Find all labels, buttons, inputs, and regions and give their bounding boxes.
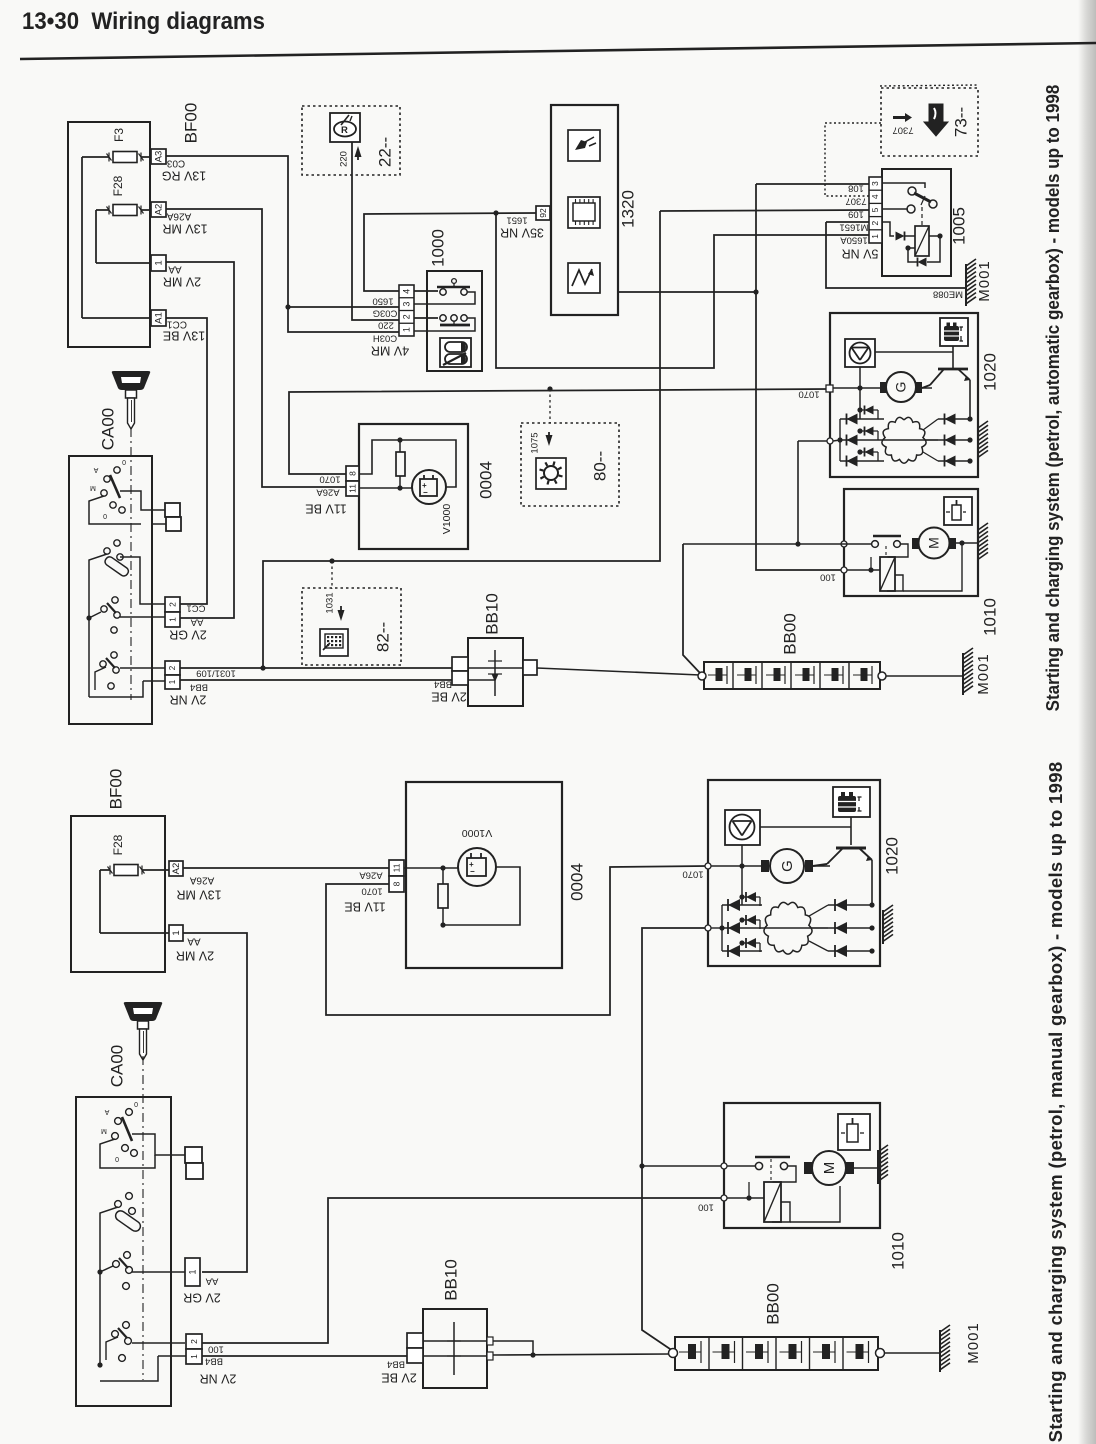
svg-text:ME088: ME088 (933, 288, 963, 299)
svg-text:1020: 1020 (882, 837, 901, 875)
svg-text:1650A: 1650A (840, 234, 868, 245)
svg-text:AA: AA (205, 1275, 218, 1286)
svg-text:M1651: M1651 (839, 221, 868, 232)
svg-text:BB4: BB4 (387, 1358, 405, 1369)
svg-text:1650: 1650 (372, 295, 393, 306)
svg-text:A26A: A26A (316, 486, 340, 497)
svg-text:−: − (423, 488, 428, 497)
svg-text:1: 1 (154, 260, 165, 265)
svg-text:13V MR: 13V MR (176, 888, 221, 902)
svg-text:1010: 1010 (980, 598, 999, 636)
svg-text:1: 1 (187, 1269, 197, 1274)
svg-text:F28: F28 (111, 175, 125, 196)
svg-text:13•30 Wiring diagrams: 13•30 Wiring diagrams (22, 8, 265, 35)
svg-text:7307: 7307 (845, 195, 866, 206)
svg-text:220: 220 (378, 319, 394, 330)
svg-text:C03H: C03H (373, 332, 397, 343)
svg-text:0: 0 (115, 1155, 119, 1162)
svg-text:CC1: CC1 (167, 318, 187, 329)
svg-text:BB00: BB00 (780, 613, 799, 655)
svg-text:8: 8 (391, 881, 401, 886)
svg-text:2: 2 (168, 665, 177, 670)
svg-text:1: 1 (168, 679, 177, 684)
svg-text:A1: A1 (154, 312, 165, 324)
svg-text:2: 2 (401, 314, 411, 319)
svg-text:1075: 1075 (530, 432, 541, 453)
svg-text:2V MR: 2V MR (163, 275, 201, 289)
svg-text:11: 11 (391, 863, 401, 872)
svg-text:1070: 1070 (319, 473, 340, 484)
svg-text:1005: 1005 (949, 207, 968, 245)
svg-text:1070: 1070 (798, 388, 819, 399)
svg-text:220: 220 (339, 151, 350, 167)
svg-text:2: 2 (189, 1339, 199, 1344)
svg-text:A3: A3 (154, 151, 165, 163)
svg-text:C03G: C03G (373, 307, 398, 318)
svg-text:BB10: BB10 (482, 593, 501, 635)
svg-text:F3: F3 (112, 128, 126, 142)
svg-text:AA: AA (187, 935, 201, 946)
svg-text:M001: M001 (965, 1322, 982, 1364)
svg-text:5: 5 (870, 207, 880, 212)
svg-text:11V BE: 11V BE (344, 900, 385, 914)
svg-text:11V BE: 11V BE (305, 502, 346, 516)
svg-text:1010: 1010 (888, 1232, 907, 1270)
svg-text:13V BE: 13V BE (163, 329, 205, 343)
svg-text:11: 11 (347, 484, 357, 493)
svg-text:4: 4 (401, 289, 411, 294)
svg-text:2V MR: 2V MR (176, 949, 214, 963)
svg-text:M: M (821, 1162, 838, 1175)
svg-text:BB4: BB4 (190, 681, 208, 692)
svg-text:3: 3 (401, 302, 411, 307)
svg-text:100: 100 (820, 571, 836, 582)
svg-text:G: G (779, 860, 796, 872)
svg-text:M: M (90, 484, 96, 491)
svg-text:M: M (101, 1127, 107, 1134)
svg-text:4: 4 (870, 194, 880, 199)
svg-text:Starting and charging system (: Starting and charging system (petrol, ma… (1045, 762, 1066, 1443)
svg-text:A26A: A26A (189, 874, 214, 885)
svg-text:1000: 1000 (428, 229, 447, 267)
svg-text:1: 1 (167, 617, 177, 622)
svg-text:−: − (470, 867, 475, 876)
svg-text:CA00: CA00 (98, 408, 117, 451)
svg-text:2: 2 (167, 602, 177, 607)
svg-text:BF00: BF00 (106, 769, 125, 810)
svg-text:1: 1 (171, 930, 182, 935)
svg-text:BB10: BB10 (441, 1259, 460, 1301)
svg-text:0: 0 (103, 512, 107, 519)
svg-text:1020: 1020 (980, 353, 999, 391)
svg-text:CA00: CA00 (107, 1045, 126, 1088)
svg-text:0: 0 (122, 458, 126, 465)
svg-text:M001: M001 (976, 260, 993, 302)
svg-text:2V BE: 2V BE (431, 690, 466, 704)
svg-text:CC1: CC1 (186, 602, 205, 613)
svg-text:92: 92 (538, 208, 548, 218)
svg-text:1651: 1651 (506, 214, 527, 225)
svg-text:A26A: A26A (359, 869, 383, 880)
svg-text:1031/109: 1031/109 (196, 667, 236, 678)
svg-text:1031: 1031 (325, 592, 336, 613)
svg-text:5V NR: 5V NR (842, 247, 879, 261)
svg-text:1: 1 (870, 234, 880, 239)
svg-text:1: 1 (401, 327, 411, 332)
svg-text:A26A: A26A (166, 210, 191, 221)
svg-text:4V MR: 4V MR (371, 344, 409, 358)
svg-text:BB4: BB4 (205, 1355, 223, 1366)
svg-text:V1000: V1000 (462, 827, 493, 839)
svg-text:BF00: BF00 (181, 103, 200, 144)
svg-text:1070: 1070 (682, 868, 703, 879)
svg-text:A2: A2 (171, 863, 182, 875)
svg-text:2V NR: 2V NR (200, 1372, 237, 1386)
svg-text:1320: 1320 (618, 190, 637, 228)
svg-text:AA: AA (190, 616, 203, 627)
svg-text:BB4: BB4 (434, 678, 452, 689)
svg-text:73--: 73-- (951, 107, 970, 137)
svg-text:1070: 1070 (361, 885, 382, 896)
svg-text:13V RG: 13V RG (162, 169, 206, 183)
svg-text:1: 1 (189, 1354, 199, 1359)
svg-text:80--: 80-- (590, 451, 609, 481)
svg-text:R: R (341, 125, 348, 136)
svg-text:2V GR: 2V GR (169, 628, 207, 642)
svg-text:0004: 0004 (476, 461, 495, 499)
svg-text:A2: A2 (154, 204, 165, 216)
svg-text:7307: 7307 (892, 124, 913, 135)
svg-text:2V GR: 2V GR (183, 1291, 221, 1305)
svg-text:13V MR: 13V MR (162, 222, 207, 236)
svg-text:0004: 0004 (567, 863, 586, 901)
svg-text:2V NR: 2V NR (170, 693, 207, 707)
svg-text:100: 100 (698, 1201, 714, 1212)
svg-text:35V NR: 35V NR (500, 226, 544, 240)
svg-text:0: 0 (134, 1100, 138, 1107)
svg-text:M: M (926, 537, 942, 549)
svg-text:G: G (893, 382, 909, 393)
svg-text:3: 3 (870, 181, 880, 186)
svg-text:BB00: BB00 (763, 1283, 782, 1325)
svg-text:AA: AA (168, 263, 182, 274)
svg-text:22--: 22-- (375, 137, 394, 167)
svg-text:Starting and charging system (: Starting and charging system (petrol, au… (1042, 85, 1063, 712)
svg-text:C03: C03 (166, 157, 185, 168)
svg-text:82--: 82-- (373, 622, 392, 652)
svg-text:V1000: V1000 (441, 504, 453, 535)
svg-text:8: 8 (347, 471, 357, 476)
svg-text:2V BE: 2V BE (381, 1371, 416, 1385)
svg-text:F28: F28 (111, 834, 125, 855)
svg-text:A: A (104, 1108, 109, 1115)
svg-text:2: 2 (870, 221, 880, 226)
svg-text:M001: M001 (975, 653, 992, 695)
svg-text:100: 100 (208, 1343, 224, 1354)
svg-text:108: 108 (848, 182, 864, 193)
svg-text:A: A (93, 466, 98, 473)
